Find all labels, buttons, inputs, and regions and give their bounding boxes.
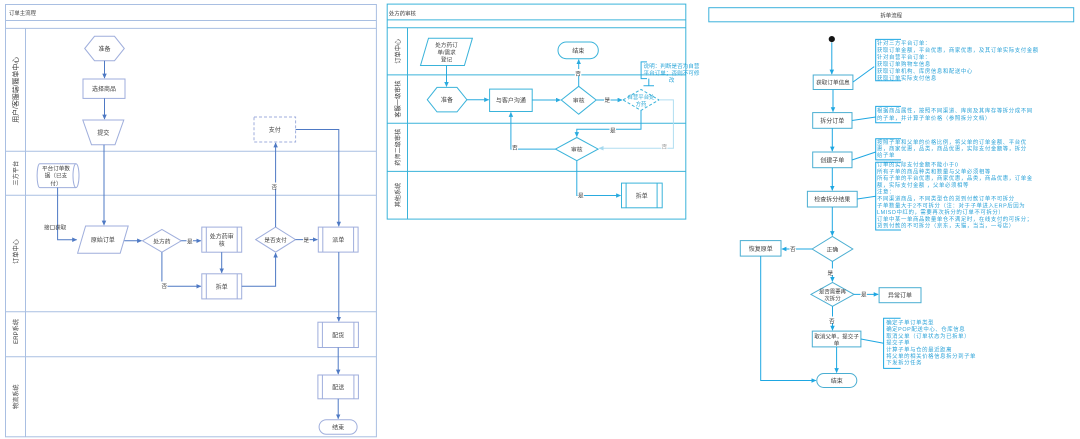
svg-text:药师二级审核: 药师二级审核 bbox=[394, 129, 402, 166]
svg-text:的子单，并计算子单价格（参照拆分文档）: 的子单，并计算子单价格（参照拆分文档） bbox=[877, 114, 991, 122]
svg-text:获取订单机构、库房信息和配送中心: 获取订单机构、库房信息和配送中心 bbox=[877, 67, 973, 75]
svg-text:处方药: 处方药 bbox=[153, 237, 171, 245]
diamond 正确 bbox=[812, 237, 853, 262]
parallelogram 处方药订单/需求登记 bbox=[421, 38, 473, 65]
svg-text:按照子单和父单的价格比例，将父单的订单金额、平台优: 按照子单和父单的价格比例，将父单的订单金额、平台优 bbox=[877, 138, 1027, 146]
subprocess 处方药审核 bbox=[202, 227, 242, 252]
svg-text:审核: 审核 bbox=[571, 146, 583, 154]
wire 检查拆分结果→正确 bbox=[831, 207, 833, 236]
svg-text:是: 是 bbox=[605, 97, 611, 104]
process 检查拆分结果 bbox=[807, 191, 857, 207]
svg-text:支付: 支付 bbox=[269, 126, 281, 134]
svg-text:否: 否 bbox=[512, 145, 518, 152]
wire 与客户沟通→审核 bbox=[532, 99, 560, 101]
note4 connector bbox=[857, 196, 876, 199]
process 拆分订单 bbox=[813, 113, 852, 129]
note 说明 text bbox=[644, 62, 700, 84]
svg-text:单: 单 bbox=[834, 339, 840, 347]
subprocess 拆单 bbox=[622, 183, 663, 208]
wire 审核1→自营平台处方药 (是) bbox=[596, 99, 622, 101]
dashed box 支付 bbox=[254, 117, 296, 142]
wire 审核2→拆单 (是) bbox=[577, 161, 621, 196]
wire 拆分订单→创建子单 bbox=[831, 128, 833, 151]
svg-text:确定子单订单类型: 确定子单订单类型 bbox=[886, 318, 934, 326]
wire 处方药订单→准备 bbox=[446, 66, 448, 87]
label 否 bbox=[575, 69, 582, 78]
svg-text:订单中某一单商品数量单仓不满足时，在线支付的可拆分；: 订单中某一单商品数量单仓不满足时，在线支付的可拆分； bbox=[877, 215, 1033, 223]
title box 拆单流程 bbox=[709, 8, 1074, 22]
svg-text:次拆分: 次拆分 bbox=[824, 294, 841, 302]
svg-text:是: 是 bbox=[578, 193, 584, 200]
svg-text:订单中心: 订单中心 bbox=[12, 239, 20, 264]
svg-text:拆单: 拆单 bbox=[216, 283, 228, 291]
wire 处方药→处方药审核 (是) bbox=[181, 240, 201, 242]
wire 支付→派单 bbox=[296, 130, 339, 227]
svg-text:是: 是 bbox=[610, 128, 616, 135]
note2 text bbox=[877, 106, 1033, 122]
svg-text:配送: 配送 bbox=[332, 383, 344, 391]
svg-text:针对自营平台订单：: 针对自营平台订单： bbox=[877, 53, 931, 61]
subprocess 配送 bbox=[318, 375, 359, 399]
svg-text:是否需要再: 是否需要再 bbox=[819, 289, 847, 296]
svg-text:异常订单: 异常订单 bbox=[888, 292, 912, 300]
svg-text:LMISD中红的，需要再次拆分的订单不可拆分）: LMISD中红的，需要再次拆分的订单不可拆分） bbox=[877, 208, 1004, 216]
diamond 是否支付 bbox=[256, 227, 296, 252]
svg-text:恢复原单: 恢复原单 bbox=[749, 245, 773, 253]
svg-text:处方药审核: 处方药审核 bbox=[389, 10, 417, 18]
hexagon 准备 bbox=[427, 87, 467, 112]
label 是 bbox=[827, 269, 834, 278]
wire 审核2→与客户沟通 (否) bbox=[511, 113, 556, 150]
diamond 审核2 bbox=[556, 138, 599, 161]
svg-text:客服一级审核: 客服一级审核 bbox=[394, 80, 402, 117]
svg-text:是否支付: 是否支付 bbox=[264, 236, 287, 244]
svg-text:不同渠道商品，不同类型仓的货到付款订单不可拆分: 不同渠道商品，不同类型仓的货到付款订单不可拆分 bbox=[877, 195, 1015, 203]
svg-text:给子单: 给子单 bbox=[877, 151, 895, 159]
wire 准备→选择商品 bbox=[104, 61, 106, 78]
trapezoid 提交 bbox=[83, 120, 124, 145]
label 是 bbox=[187, 237, 194, 246]
wire 正确→是否需要再次拆分 (是) bbox=[831, 261, 833, 281]
svg-text:拆单: 拆单 bbox=[636, 192, 648, 200]
svg-text:提交子单: 提交子单 bbox=[886, 339, 910, 347]
svg-text:改: 改 bbox=[669, 76, 675, 84]
diamond 处方药 bbox=[143, 229, 182, 252]
svg-text:检查拆分结果: 检查拆分结果 bbox=[814, 196, 850, 204]
svg-text:所有子单的商品种类和数量与父单必须相等: 所有子单的商品种类和数量与父单必须相等 bbox=[877, 167, 991, 175]
label 是 bbox=[303, 236, 310, 245]
note2 bracket bbox=[876, 106, 901, 122]
svg-text:否: 否 bbox=[662, 144, 668, 151]
svg-text:将父单的相关价格信息拆分到子单: 将父单的相关价格信息拆分到子单 bbox=[886, 352, 976, 360]
subprocess 派单 bbox=[318, 227, 358, 252]
svg-text:拆分订单: 拆分订单 bbox=[820, 117, 844, 125]
svg-text:额，实际支付金额 ，父单必须相等: 额，实际支付金额 ，父单必须相等 bbox=[877, 181, 969, 189]
svg-text:订单中心: 订单中心 bbox=[394, 39, 402, 64]
note2 connector bbox=[852, 117, 876, 121]
pool frame 处方药审核 bbox=[387, 4, 686, 219]
svg-text:自营平台处: 自营平台处 bbox=[628, 93, 656, 101]
label 是 bbox=[578, 191, 585, 200]
svg-text:说明：判断是否为自营: 说明：判断是否为自营 bbox=[644, 62, 700, 70]
label 是 bbox=[604, 96, 611, 105]
wire 是否支付→派单 (是) bbox=[296, 239, 318, 241]
wire 是否支付→支付 (否) bbox=[275, 143, 277, 227]
pool frame 订单主流程 bbox=[6, 5, 377, 437]
note5 connector bbox=[861, 339, 884, 343]
note1 bracket bbox=[876, 39, 901, 80]
svg-text:获取订单购物车信息: 获取订单购物车信息 bbox=[877, 60, 931, 68]
svg-text:结束: 结束 bbox=[831, 377, 843, 385]
process 获取订单信息 bbox=[813, 75, 853, 90]
wire 提交→原始订单 bbox=[103, 145, 105, 225]
svg-text:正确: 正确 bbox=[827, 246, 839, 254]
svg-text:登记: 登记 bbox=[441, 56, 453, 64]
subprocess 拆单 bbox=[202, 274, 242, 299]
svg-text:否: 否 bbox=[829, 318, 835, 325]
svg-text:下发拆分任务: 下发拆分任务 bbox=[886, 359, 922, 367]
svg-text:处方药订: 处方药订 bbox=[435, 41, 458, 49]
wire start→获取订单信息 bbox=[831, 43, 833, 75]
process 与客户沟通 bbox=[490, 89, 533, 111]
wire 派单→配货 bbox=[338, 252, 340, 321]
wire 是否需要再次拆分→异常订单 (是) bbox=[854, 293, 878, 295]
wire 正确→恢复原单 (否) bbox=[782, 248, 812, 250]
svg-text:ERP系统: ERP系统 bbox=[12, 319, 20, 344]
svg-text:取消父单，提交子: 取消父单，提交子 bbox=[814, 332, 859, 340]
svg-text:根据商品属性，按照不同渠道、库房及其库存等拆分成不同: 根据商品属性，按照不同渠道、库房及其库存等拆分成不同 bbox=[877, 106, 1033, 114]
wire 处方药审核→拆单 bbox=[221, 252, 223, 273]
svg-text:处方药审: 处方药审 bbox=[210, 233, 234, 241]
process 创建子单 bbox=[813, 152, 852, 168]
svg-text:付）: 付） bbox=[50, 179, 61, 187]
wire 配货→配送 bbox=[337, 348, 339, 375]
svg-text:是: 是 bbox=[861, 292, 867, 299]
wire 自营平台处方药→审核2 (否) bbox=[599, 100, 673, 148]
svg-text:确定POP配送中心、仓库信息: 确定POP配送中心、仓库信息 bbox=[886, 325, 965, 333]
svg-text:用户/客服端/履单中心: 用户/客服端/履单中心 bbox=[11, 57, 20, 123]
wire 原始订单→处方药 bbox=[124, 240, 141, 242]
terminator 结束 bbox=[319, 420, 357, 435]
process 取消父单，提交子单 bbox=[812, 331, 861, 347]
wire 配送→结束 bbox=[337, 399, 339, 419]
note 说明 bracket bbox=[641, 62, 654, 86]
svg-text:配货: 配货 bbox=[332, 331, 344, 339]
wire 拆单→是否支付 bbox=[242, 253, 276, 286]
svg-text:子单数量大于2不可拆分（注：对于子单进入ERP后因为: 子单数量大于2不可拆分（注：对于子单进入ERP后因为 bbox=[877, 201, 1025, 209]
note3 bracket bbox=[876, 139, 901, 160]
svg-text:是: 是 bbox=[304, 237, 310, 244]
svg-text:单/需求: 单/需求 bbox=[437, 48, 456, 56]
note3 connector bbox=[852, 152, 876, 160]
svg-text:注意：: 注意： bbox=[877, 188, 895, 196]
note5 text bbox=[886, 318, 976, 366]
label 否 bbox=[271, 183, 278, 192]
svg-text:准备: 准备 bbox=[441, 96, 453, 104]
note3 text bbox=[877, 138, 1027, 159]
svg-text:获取订单金额，平台优惠，商家优惠，及其订单实际支付金额: 获取订单金额，平台优惠，商家优惠，及其订单实际支付金额 bbox=[877, 46, 1039, 54]
hexagon 准备 bbox=[85, 36, 125, 60]
label 否 bbox=[161, 282, 168, 291]
svg-text:其他系统: 其他系统 bbox=[394, 183, 402, 208]
terminator 结束 bbox=[558, 42, 598, 59]
svg-text:据（已支: 据（已支 bbox=[45, 172, 68, 180]
svg-text:选择商品: 选择商品 bbox=[92, 85, 116, 93]
svg-text:货到付款的不可拆分（京东，天猫，当当，一号店）: 货到付款的不可拆分（京东，天猫，当当，一号店） bbox=[877, 222, 1015, 230]
svg-text:准备: 准备 bbox=[98, 45, 110, 53]
label 是 bbox=[861, 290, 868, 299]
svg-text:取消父单（订单状态为已拆单）: 取消父单（订单状态为已拆单） bbox=[886, 332, 970, 340]
svg-text:针对三方平台订单：: 针对三方平台订单： bbox=[877, 39, 931, 47]
wire 创建子单→检查拆分结果 bbox=[831, 168, 833, 191]
svg-text:获取订单实际支付信息: 获取订单实际支付信息 bbox=[877, 74, 937, 82]
label 否 bbox=[661, 142, 668, 151]
cylinder 平台订单数据（已支付） bbox=[37, 164, 79, 188]
svg-text:提交: 提交 bbox=[97, 129, 109, 137]
parallelogram 原始订单 bbox=[78, 226, 129, 253]
svg-text:是: 是 bbox=[187, 238, 193, 245]
process 异常订单 bbox=[879, 288, 921, 303]
svg-text:三方平台: 三方平台 bbox=[12, 161, 20, 186]
diamond 审核1 bbox=[561, 86, 596, 114]
svg-text:原始订单: 原始订单 bbox=[91, 236, 115, 244]
svg-text:审核: 审核 bbox=[573, 97, 585, 105]
wire 是否需要再次拆分→取消父单 (否) bbox=[832, 306, 834, 330]
wire 获取订单信息→拆分订单 bbox=[832, 90, 834, 112]
label 否 bbox=[512, 143, 519, 152]
svg-text:派单: 派单 bbox=[332, 236, 344, 244]
svg-text:拆单流程: 拆单流程 bbox=[880, 12, 902, 20]
svg-text:订单的实际支付金额不能小于0: 订单的实际支付金额不能小于0 bbox=[877, 161, 958, 169]
svg-text:惠，商家优惠，品类，商品优惠，实际支付金额等，拆分: 惠，商家优惠，品类，商品优惠，实际支付金额等，拆分 bbox=[877, 144, 1027, 152]
label 否 bbox=[790, 245, 797, 254]
note5 bracket bbox=[884, 318, 901, 368]
label 是 bbox=[610, 126, 617, 135]
note4 bracket bbox=[876, 162, 901, 230]
note1 text bbox=[877, 39, 1039, 82]
wire 恢复原单→结束 bbox=[761, 256, 816, 380]
wire 自营平台处方药→审核2 (是) bbox=[577, 110, 641, 136]
svg-text:核: 核 bbox=[219, 240, 225, 248]
terminator 结束 bbox=[817, 374, 857, 388]
wire 取消父单→结束 bbox=[836, 347, 838, 373]
svg-text:否: 否 bbox=[575, 71, 581, 78]
svg-text:是: 是 bbox=[828, 270, 834, 277]
svg-text:获取订单信息: 获取订单信息 bbox=[816, 79, 850, 87]
svg-text:结束: 结束 bbox=[332, 423, 344, 431]
svg-text:结束: 结束 bbox=[572, 47, 584, 55]
dashed diamond 自营平台处方药 bbox=[623, 89, 659, 110]
svg-text:否: 否 bbox=[272, 184, 278, 191]
label 否 bbox=[829, 317, 836, 326]
svg-text:创建子单: 创建子单 bbox=[820, 156, 844, 164]
svg-text:否: 否 bbox=[790, 246, 796, 253]
wire 审核1→结束 (否) bbox=[578, 60, 580, 87]
svg-text:平台订单数: 平台订单数 bbox=[42, 165, 70, 173]
diamond 是否需要再次拆分 bbox=[811, 282, 854, 306]
wire 接口获取 cylinder→原始订单 bbox=[58, 188, 77, 240]
svg-text:所有子单的平台优惠，商家优惠，品类，商品优惠，订单金: 所有子单的平台优惠，商家优惠，品类，商品优惠，订单金 bbox=[877, 174, 1033, 182]
process 选择商品 bbox=[83, 79, 125, 98]
wire 处方药→拆单 (否) bbox=[162, 252, 201, 286]
svg-text:否: 否 bbox=[162, 283, 168, 290]
start dot bbox=[829, 36, 835, 42]
svg-text:计算子单与仓的最近距离: 计算子单与仓的最近距离 bbox=[886, 345, 952, 353]
note1 connector bbox=[853, 67, 874, 83]
svg-text:平台订单；否则不可修: 平台订单；否则不可修 bbox=[644, 69, 700, 77]
subprocess 配货 bbox=[318, 322, 359, 347]
svg-text:订单主流程: 订单主流程 bbox=[9, 9, 37, 17]
wire 选择商品→提交 bbox=[104, 98, 106, 119]
note4 text bbox=[877, 161, 1033, 230]
svg-text:方药: 方药 bbox=[636, 100, 647, 108]
svg-text:与客户沟通: 与客户沟通 bbox=[496, 97, 526, 105]
wire 准备→与客户沟通 bbox=[467, 99, 489, 101]
svg-text:物流系统: 物流系统 bbox=[12, 384, 20, 409]
svg-text:接口获取: 接口获取 bbox=[44, 224, 67, 232]
process 恢复原单 bbox=[740, 241, 781, 257]
